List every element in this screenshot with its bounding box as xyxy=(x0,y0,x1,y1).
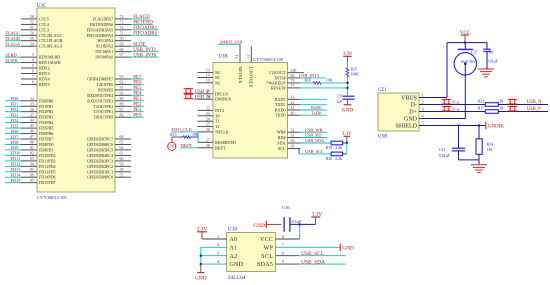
svg-text:69: 69 xyxy=(120,42,124,46)
no-ERC marker + net label USB_N on DMINUS xyxy=(184,94,211,100)
svg-text:NC: NC xyxy=(215,80,221,85)
svg-text:6: 6 xyxy=(32,70,34,74)
svg-text:WR#: WR# xyxy=(277,130,286,135)
wire to USB_N with no-ERC xyxy=(498,99,548,105)
pin 89 RXD1OUTPE3 of U3C xyxy=(87,97,131,103)
svg-text:CZ1: CZ1 xyxy=(378,88,387,93)
svg-text:GPIFADR5PC5: GPIFADR5PC5 xyxy=(87,147,113,152)
svg-text:FD7: FD7 xyxy=(11,134,20,139)
pin 87 T1OUTPE1 of U3C xyxy=(93,108,131,114)
pin 64 GPIFADR7PC7 of U3C xyxy=(87,135,131,141)
wire + net label PE2 xyxy=(131,103,144,108)
svg-text:72: 72 xyxy=(120,26,124,30)
pin 91 INT6PE5 of U3C xyxy=(97,86,131,92)
pin 13 NC of U3B xyxy=(198,69,221,75)
svg-text:RDY3: RDY3 xyxy=(39,71,50,76)
pin 74 FLAGDPA7 of U3C xyxy=(93,15,131,21)
svg-text:89: 89 xyxy=(120,97,124,101)
svg-text:FD1PB1: FD1PB1 xyxy=(39,104,53,109)
svg-text:D+: D+ xyxy=(409,109,417,115)
pin 41 RXD0 of U3B xyxy=(275,106,301,112)
svg-text:81: 81 xyxy=(30,146,34,150)
pin 81 FD9PD1 of U3C xyxy=(21,146,54,152)
svg-text:SCL: SCL xyxy=(261,254,273,260)
pin 7 WP of U18 xyxy=(264,242,285,251)
pin 94 FD12PD4 of U3C xyxy=(21,162,56,168)
svg-text:FD2PB2: FD2PB2 xyxy=(39,109,53,114)
svg-text:90: 90 xyxy=(120,91,124,95)
svg-text:1: 1 xyxy=(422,92,424,97)
wire + net label USB_INT0 xyxy=(131,53,159,58)
svg-text:USB_INT0: USB_INT0 xyxy=(133,53,157,58)
svg-text:2: 2 xyxy=(422,99,424,104)
svg-text:FD8: FD8 xyxy=(11,140,20,145)
wire + net label PE3 xyxy=(131,97,144,102)
svg-text:FD11: FD11 xyxy=(11,156,21,161)
pin 58 CTL5 of U3C xyxy=(21,15,49,21)
svg-text:51: 51 xyxy=(30,26,34,30)
wire + net label FLAGB xyxy=(5,36,21,41)
svg-text:SCL: SCL xyxy=(278,146,286,151)
pin 12 XTALOUT wire xyxy=(247,47,252,63)
svg-text:100: 100 xyxy=(291,69,297,73)
svg-text:CTL0FLAGA: CTL0FLAGA xyxy=(39,44,62,49)
pin 63 GPIFADR6PC6 of U3C xyxy=(87,141,131,147)
svg-text:40: 40 xyxy=(291,111,295,115)
svg-text:FD15: FD15 xyxy=(11,178,22,183)
wire + net label SLRD xyxy=(5,52,21,57)
svg-text:10K: 10K xyxy=(326,79,333,83)
power VCC xyxy=(460,30,471,43)
svg-text:GPIFADR0PC0: GPIFADR0PC0 xyxy=(87,175,113,180)
svg-text:RDY4: RDY4 xyxy=(39,77,50,82)
svg-text:USB_SDA: USB_SDA xyxy=(301,259,325,265)
wire + net label FLAGD xyxy=(131,15,150,20)
svg-text:FD10: FD10 xyxy=(11,151,22,156)
svg-text:70: 70 xyxy=(120,37,124,41)
pin 72 FIFOADR1PA5 of U3C xyxy=(87,26,131,32)
pin 14 NC of U3B xyxy=(198,74,221,80)
wire + net label FD4 xyxy=(5,118,21,123)
pin 68 INT1#PA1 of U3C xyxy=(95,48,131,54)
resistor R22 18 xyxy=(478,99,504,106)
svg-text:68: 68 xyxy=(120,48,124,52)
svg-text:93: 93 xyxy=(120,75,124,79)
pin 56 CTL2FLAGC of U3C xyxy=(21,31,62,37)
net label USB_SCL (EEPROM) xyxy=(276,251,346,257)
earth ground below C39 xyxy=(478,68,494,70)
svg-text:GPIFADR6PC6: GPIFADR6PC6 xyxy=(87,142,113,147)
wire D- with D_p label xyxy=(419,99,485,104)
svg-text:WU2PA3: WU2PA3 xyxy=(97,38,113,43)
svg-text:A2: A2 xyxy=(230,254,238,260)
svg-text:5: 5 xyxy=(422,120,425,125)
svg-text:C41: C41 xyxy=(439,148,446,152)
wire + net label SLWR xyxy=(5,58,21,63)
svg-text:46: 46 xyxy=(30,130,34,134)
wire + net label FIFOADR0 xyxy=(131,32,159,37)
net label USB_SDA + wire to R19 xyxy=(301,138,332,143)
svg-text:BKPT: BKPT xyxy=(215,145,226,150)
svg-text:A0: A0 xyxy=(230,237,238,243)
net label USB_SCL + wire to R20 xyxy=(299,149,331,154)
svg-text:74: 74 xyxy=(120,15,124,19)
svg-text:71: 71 xyxy=(120,31,124,35)
wire + net label PKTEND xyxy=(131,21,153,26)
svg-text:PE1: PE1 xyxy=(133,108,142,113)
svg-text:USB_P: USB_P xyxy=(195,90,210,95)
net label USB_WR xyxy=(301,127,327,132)
wire IFCLK to RESERVED vertical xyxy=(197,132,199,142)
svg-text:GPIFADR7PC7: GPIFADR7PC7 xyxy=(87,137,113,142)
svg-text:86: 86 xyxy=(120,113,124,117)
pin 6 SCL of U18 xyxy=(261,251,284,260)
pin 8 VCC of U18 xyxy=(260,234,285,243)
power 3.3V right of C36 xyxy=(311,211,322,224)
pin 22 INT4 of U3B xyxy=(198,107,224,113)
svg-text:SLOEPA2: SLOEPA2 xyxy=(96,44,113,49)
svg-text:FD9PD1: FD9PD1 xyxy=(39,147,54,152)
svg-text:CTL4: CTL4 xyxy=(39,22,49,27)
pin 80 FD8PD0 of U3C xyxy=(21,141,54,147)
power GND below C9 xyxy=(342,99,353,113)
pin 52 CTL4 of U3C xyxy=(21,21,49,27)
svg-text:T0: T0 xyxy=(215,113,220,118)
svg-text:31: 31 xyxy=(291,134,295,138)
pin 92 T2EXPE6 of U3C xyxy=(96,81,131,87)
pin 96 FD14PD6 of U3C xyxy=(21,173,56,179)
svg-text:FD9: FD9 xyxy=(11,145,20,150)
svg-text:14: 14 xyxy=(206,74,210,78)
pin 95 FD13PD5 of U3C xyxy=(21,168,56,174)
pin 61 GPIFADR4PC4 of U3C xyxy=(87,152,131,158)
power GND below EEPROM xyxy=(195,264,207,282)
wire + net label FD2 xyxy=(5,107,21,112)
svg-text:3: 3 xyxy=(422,106,425,111)
svg-text:47: 47 xyxy=(30,135,34,139)
svg-text:GND: GND xyxy=(404,116,418,122)
pin 3 RDY0SLRD of U3C xyxy=(21,53,60,59)
wire + net label FD3 xyxy=(5,113,21,118)
svg-text:RD#: RD# xyxy=(278,135,286,140)
pin 8 RDY5 of U3C xyxy=(21,81,50,87)
wire + net label FD15 xyxy=(5,178,21,183)
pin 11 XTALIN wire xyxy=(235,44,240,62)
pin 4 RDY1SLWR of U3C xyxy=(21,59,61,65)
svg-text:GNDIK: GNDIK xyxy=(488,125,504,130)
svg-text:23: 23 xyxy=(206,112,210,116)
svg-text:C37: C37 xyxy=(471,50,478,54)
wire + net label USB_INT1 xyxy=(131,48,159,53)
pin 2 A1 of U18 xyxy=(201,242,238,251)
resistor R19 2.2k xyxy=(326,141,347,150)
power GND left of C36 xyxy=(253,221,281,229)
svg-text:XTALIN: XTALIN xyxy=(238,66,243,83)
svg-text:FD11PD3: FD11PD3 xyxy=(39,158,55,163)
svg-text:27: 27 xyxy=(206,138,210,142)
svg-text:RXD0OUTPE4: RXD0OUTPE4 xyxy=(87,93,113,98)
resistor R16 10K on *WAKEUP xyxy=(301,79,347,85)
svg-text:T1: T1 xyxy=(215,119,220,124)
svg-text:FD6: FD6 xyxy=(11,129,20,134)
svg-text:52: 52 xyxy=(30,21,34,25)
svg-text:82: 82 xyxy=(30,152,34,156)
svg-text:24: 24 xyxy=(206,117,210,121)
svg-text:11: 11 xyxy=(235,55,239,59)
svg-text:FD4PB4: FD4PB4 xyxy=(39,120,53,125)
junction dots on reset node xyxy=(346,82,348,84)
svg-text:CTL5: CTL5 xyxy=(39,16,49,21)
bottom wire C41-R24 xyxy=(459,159,480,161)
svg-text:TxD0: TxD0 xyxy=(311,110,322,115)
capacitor C39 0.01uF xyxy=(483,43,498,69)
pin 4 GND of CZ1 xyxy=(404,113,425,122)
pin 86 T0OUTPE0 of U3C xyxy=(93,113,131,119)
wire + net label FD1 xyxy=(5,102,21,107)
svg-text:USB_N: USB_N xyxy=(195,95,211,100)
svg-text:97: 97 xyxy=(30,179,34,183)
svg-text:TXD0: TXD0 xyxy=(275,113,285,118)
svg-text:PE3: PE3 xyxy=(133,97,142,102)
svg-text:GND: GND xyxy=(342,246,354,252)
power ground GND (circle style) xyxy=(168,142,177,150)
svg-text:GPIFADR3PC3: GPIFADR3PC3 xyxy=(87,158,113,163)
pin 26 *IFCLK of U3B xyxy=(198,128,229,134)
pin 37 FD3PB3 of U3C xyxy=(21,113,53,119)
svg-text:4: 4 xyxy=(32,59,34,63)
svg-text:USB_INT5: USB_INT5 xyxy=(299,73,320,78)
svg-text:RDY2: RDY2 xyxy=(39,66,50,71)
wire VBUS to VCC rail xyxy=(419,97,447,99)
svg-text:PE0: PE0 xyxy=(133,114,142,119)
resistor R25 100K xyxy=(346,62,359,77)
capacitor C37 10uF/16V (electrolytic) xyxy=(454,43,477,75)
svg-text:73: 73 xyxy=(120,21,124,25)
svg-text:FD14PD6: FD14PD6 xyxy=(39,175,56,180)
pin 5 RDY2 of U3C xyxy=(21,64,50,70)
wire + net label FD8 xyxy=(5,140,21,145)
svg-text:INT6PE5: INT6PE5 xyxy=(97,87,113,92)
pin 32 WR# of U3B xyxy=(277,128,301,134)
pin 24 T1 of U3B xyxy=(198,117,220,123)
svg-text:5: 5 xyxy=(32,64,34,68)
pin 3 D+ of CZ1 xyxy=(409,106,424,115)
svg-text:FIFO_CLK: FIFO_CLK xyxy=(172,127,193,132)
svg-text:USB_RD: USB_RD xyxy=(305,133,322,138)
pin 30 SDA of U3B xyxy=(277,139,300,145)
USB connector CZ1 xyxy=(378,88,419,139)
svg-text:RXD1OUTPE3: RXD1OUTPE3 xyxy=(87,98,113,103)
svg-text:80: 80 xyxy=(30,141,34,145)
svg-text:FLAGA: FLAGA xyxy=(5,42,20,47)
svg-text:96: 96 xyxy=(30,173,34,177)
svg-text:CY7C68013-100: CY7C68013-100 xyxy=(253,57,283,62)
pin 17 DPLUS of U3B xyxy=(198,90,229,96)
svg-text:25: 25 xyxy=(206,123,210,127)
svg-text:44: 44 xyxy=(30,119,34,123)
svg-text:FD10PD2: FD10PD2 xyxy=(39,153,56,158)
svg-text:FD14: FD14 xyxy=(11,173,22,178)
capacitor C36 0.1uF xyxy=(282,205,316,232)
wire + net label FD6 xyxy=(5,129,21,134)
svg-text:PE5: PE5 xyxy=(133,86,142,91)
svg-text:D-: D- xyxy=(411,102,417,108)
wire + net label FD12 xyxy=(5,162,21,167)
svg-text:88: 88 xyxy=(120,102,124,106)
svg-text:PKTEND: PKTEND xyxy=(133,21,153,26)
pin 70 WU2PA3 of U3C xyxy=(97,37,131,43)
pin 4 GND of U18 xyxy=(201,259,244,268)
svg-text:RESET#: RESET# xyxy=(271,85,286,90)
svg-text:USB_SCL: USB_SCL xyxy=(305,149,324,154)
VCC rail wire xyxy=(447,42,487,44)
svg-text:RESERVED: RESERVED xyxy=(215,140,236,145)
resistor R15 10K pulldown xyxy=(170,133,199,138)
wire + net label FD0 xyxy=(5,96,21,101)
svg-text:U3B: U3B xyxy=(219,55,228,60)
pin 71 FIFOADR0PA4 of U3C xyxy=(87,31,131,37)
svg-text:FD6PB6: FD6PB6 xyxy=(39,131,53,136)
svg-text:77: 77 xyxy=(291,84,295,88)
pin 1 VBUS of CZ1 xyxy=(401,92,424,101)
svg-text:FD13PD5: FD13PD5 xyxy=(39,169,56,174)
svg-text:DMINUS: DMINUS xyxy=(215,97,232,102)
svg-text:XTALOUT: XTALOUT xyxy=(249,66,254,88)
net label USB_INT5 xyxy=(299,73,326,78)
svg-text:100K: 100K xyxy=(351,73,360,77)
pin 58 GPIFADR1PC1 of U3C xyxy=(87,168,131,174)
pin 36 FD2PB2 of U3C xyxy=(21,108,53,114)
svg-text:3: 3 xyxy=(32,53,34,57)
wire D+ with D_n label xyxy=(419,106,485,111)
svg-text:T2: T2 xyxy=(215,124,220,129)
svg-text:RDY0SLRD: RDY0SLRD xyxy=(39,55,60,60)
wire SCL step-down xyxy=(298,149,300,154)
svg-text:T2EXPE6: T2EXPE6 xyxy=(96,82,113,87)
pin 2 D- of CZ1 xyxy=(411,99,424,108)
svg-text:U18: U18 xyxy=(228,227,238,233)
svg-text:56: 56 xyxy=(30,31,34,35)
svg-text:SDA5: SDA5 xyxy=(257,262,273,268)
svg-text:94: 94 xyxy=(30,162,34,166)
svg-text:R17: R17 xyxy=(478,106,485,110)
svg-text:34: 34 xyxy=(30,97,34,101)
pin 57 GPIFADR0PC0 of U3C xyxy=(87,173,131,179)
svg-text:5: 5 xyxy=(282,259,285,264)
wire + net label FIFOADR1 xyxy=(131,26,159,31)
pin 27 RESERVED of U3B xyxy=(198,138,236,144)
svg-text:8: 8 xyxy=(282,234,285,239)
svg-text:R25: R25 xyxy=(351,68,357,72)
svg-text:FD5: FD5 xyxy=(11,123,20,128)
pin 62 GPIFADR5PC5 of U3C xyxy=(87,146,131,152)
wire + net label PE6 xyxy=(131,81,144,86)
svg-text:2.2k: 2.2k xyxy=(335,157,342,161)
svg-text:FLAGB: FLAGB xyxy=(5,36,19,41)
wire VCC pin8 to C36 node xyxy=(276,238,300,240)
svg-text:R22: R22 xyxy=(478,99,485,103)
wire to USB_P with no-ERC xyxy=(498,106,548,112)
svg-text:57: 57 xyxy=(120,173,124,177)
earth ground shield RC xyxy=(478,160,480,164)
pin 34 FD0PB0 of U3C xyxy=(21,97,53,103)
svg-text:GPIFADR8PE7: GPIFADR8PE7 xyxy=(87,77,113,82)
svg-text:26: 26 xyxy=(206,128,210,132)
wire WP to GND xyxy=(276,244,354,252)
power 3.3V for A0 xyxy=(197,226,208,239)
svg-text:RXD1: RXD1 xyxy=(275,97,286,102)
svg-text:GPIFADR4PC4: GPIFADR4PC4 xyxy=(87,153,113,158)
svg-text:2.2k: 2.2k xyxy=(335,146,342,150)
svg-text:4: 4 xyxy=(217,259,220,264)
svg-text:87: 87 xyxy=(120,108,124,112)
pin 54 CTL0FLAGA of U3C xyxy=(21,42,62,48)
svg-text:FD8PD0: FD8PD0 xyxy=(39,142,54,147)
pin 59 GPIFADR2PC2 of U3C xyxy=(87,162,131,168)
svg-text:VBUS: VBUS xyxy=(401,95,417,101)
pin 35 FD1PB1 of U3C xyxy=(21,102,53,108)
wire + net label FD5 xyxy=(5,123,21,128)
wire RESET# to RC node xyxy=(301,87,347,89)
svg-text:USB_SDA: USB_SDA xyxy=(305,138,325,143)
no-ERC marker + net label USB_P on DPLUS xyxy=(184,89,210,95)
svg-text:13: 13 xyxy=(206,69,210,73)
svg-text:24LC64: 24LC64 xyxy=(228,275,246,281)
power 3.3V pullup xyxy=(342,132,352,143)
svg-text:58: 58 xyxy=(30,15,34,19)
svg-text:U3C: U3C xyxy=(37,4,46,9)
capacitor C41 0.01uF xyxy=(439,126,465,160)
svg-text:SHIELD: SHIELD xyxy=(396,123,418,129)
svg-text:FLAGD: FLAGD xyxy=(133,15,150,20)
svg-text:36: 36 xyxy=(30,108,34,112)
svg-text:DPLUS: DPLUS xyxy=(215,91,229,96)
net label USB_RD xyxy=(301,133,327,138)
svg-text:FD15PD7: FD15PD7 xyxy=(39,180,56,185)
pin 90 RXD0OUTPE4 of U3C xyxy=(87,91,131,97)
svg-text:55: 55 xyxy=(30,37,34,41)
svg-text:PE6: PE6 xyxy=(133,81,142,86)
svg-text:RDY1SLWR: RDY1SLWR xyxy=(39,60,61,65)
vertical wire A1/A2/GND tie xyxy=(200,247,202,264)
svg-text:10K: 10K xyxy=(192,133,199,137)
svg-text:43: 43 xyxy=(291,95,295,99)
svg-text:8: 8 xyxy=(32,81,34,85)
pin 25 T2 of U3B xyxy=(198,123,220,129)
wire + net label PE0 xyxy=(131,114,144,119)
svg-text:INT1#PA1: INT1#PA1 xyxy=(95,49,113,54)
svg-text:FD3: FD3 xyxy=(11,113,20,118)
svg-text:BKPT: BKPT xyxy=(181,143,193,148)
svg-text:67: 67 xyxy=(120,53,124,57)
power 3.3V above R25 xyxy=(343,52,353,62)
svg-text:1uF: 1uF xyxy=(336,100,342,104)
svg-text:GND: GND xyxy=(195,276,207,282)
svg-text:T2OUTPE2: T2OUTPE2 xyxy=(93,104,113,109)
svg-text:6: 6 xyxy=(282,251,285,256)
wire + net label FD10 xyxy=(5,151,21,156)
svg-text:59: 59 xyxy=(120,162,124,166)
node wire R25 to C9 xyxy=(347,77,349,96)
svg-text:GPIFADR1PC1: GPIFADR1PC1 xyxy=(87,169,113,174)
svg-text:A1: A1 xyxy=(230,245,238,251)
svg-text:FIFOADR1PA5: FIFOADR1PA5 xyxy=(87,27,113,32)
wire SHIELD xyxy=(419,125,485,127)
svg-text:32: 32 xyxy=(291,128,295,132)
svg-text:62: 62 xyxy=(120,146,124,150)
svg-text:RDY5: RDY5 xyxy=(39,82,50,87)
svg-text:4: 4 xyxy=(422,113,425,118)
